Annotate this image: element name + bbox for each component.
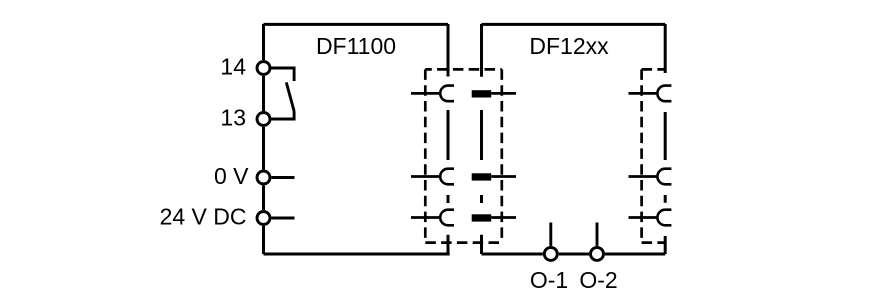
terminal 0 V: [257, 171, 270, 184]
svg-text:DF1100: DF1100: [316, 33, 396, 59]
pin contact X1-b1: [472, 90, 492, 97]
wire stub 0 V: [272, 176, 295, 179]
wire DF1100 right column (through X1 sockets): [447, 24, 450, 254]
svg-text:O-1: O-1: [530, 267, 568, 293]
wire stub O-2: [596, 223, 599, 246]
module DF1100 bottom line: [264, 253, 450, 256]
module DF1100 top line: [264, 23, 449, 26]
connector X2 housing (dashed, open right): [642, 69, 666, 242]
socket contact X1-a2: [411, 175, 440, 178]
svg-text:13: 13: [220, 105, 246, 131]
terminal O-1: [544, 247, 557, 260]
wire DF12xx right column (through X2 sockets): [664, 24, 667, 254]
connector X1 housing (dashed box): [425, 69, 502, 242]
terminal 13: [257, 113, 270, 126]
wire stub 24 V DC: [272, 217, 295, 220]
module DF12xx top line: [482, 23, 666, 26]
wire DF12xx left column (through X1 pins): [480, 24, 483, 254]
svg-text:O-2: O-2: [579, 267, 617, 293]
switch S1 between 14 and 13: [271, 68, 295, 119]
socket contact X1-a3: [411, 216, 440, 219]
socket contact X2-3: [629, 216, 658, 219]
terminal O-2: [591, 247, 604, 260]
pin contact X1-b3: [472, 214, 492, 221]
svg-text:24 V DC: 24 V DC: [160, 204, 247, 230]
wire stub O-1: [549, 223, 552, 246]
module DF12xx bottom line: [482, 253, 666, 256]
socket contact X1-a1: [411, 92, 440, 95]
socket contact X2-2: [629, 175, 658, 178]
terminal 24 V DC: [257, 212, 270, 225]
svg-text:0 V: 0 V: [214, 163, 249, 189]
svg-text:14: 14: [220, 54, 246, 80]
svg-text:DF12xx: DF12xx: [529, 33, 609, 59]
socket contact X2-1: [629, 92, 658, 95]
wire left bus of DF1100: [262, 24, 265, 254]
terminal 14: [257, 62, 270, 75]
pin contact X1-b2: [472, 173, 492, 180]
